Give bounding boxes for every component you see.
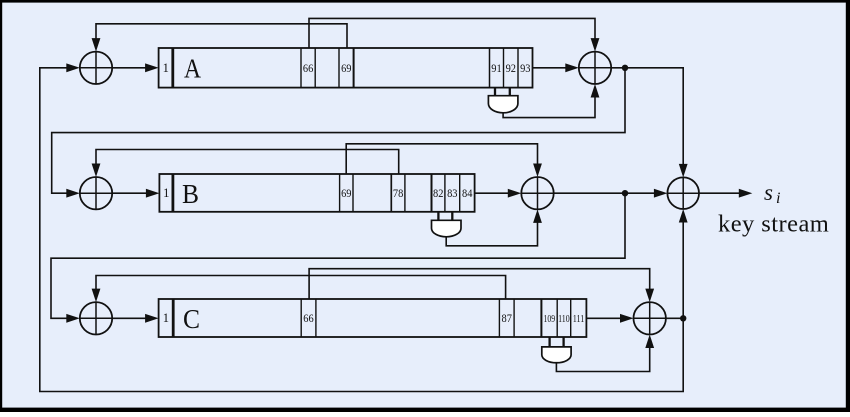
svg-text:key stream: key stream <box>718 211 829 238</box>
svg-text:66: 66 <box>303 311 313 325</box>
shift register A (93 bits) <box>159 48 533 88</box>
svg-text:66: 66 <box>303 61 313 75</box>
AND gate, taps C109·C110 <box>542 337 571 363</box>
XOR gate, register B output (right) <box>521 177 553 209</box>
wire register B output (cell 84) to XOR B-right <box>475 189 522 198</box>
AND gate, taps A91·A92 <box>488 88 518 113</box>
label key stream <box>718 211 829 238</box>
wire tap A66 to XOR A-right top <box>309 18 599 51</box>
wire key stream output arrow <box>699 189 752 198</box>
svg-text:84: 84 <box>462 186 472 200</box>
svg-text:91: 91 <box>491 61 501 75</box>
wire A output down/left to XOR B-left input <box>52 68 625 198</box>
wire AND-B output to XOR B bottom <box>446 209 542 245</box>
svg-text:69: 69 <box>341 61 351 75</box>
shift register B (84 bits) <box>159 174 474 212</box>
svg-text:1: 1 <box>163 61 169 75</box>
wire register C output (cell 111) to XOR C-right <box>586 314 633 323</box>
wire register A output (cell 93) to XOR A-right <box>533 63 579 72</box>
wire tap A69 feedback to XOR A-left top <box>92 24 347 52</box>
svg-text:92: 92 <box>506 61 516 75</box>
svg-text:93: 93 <box>520 61 530 75</box>
XOR gate, register A input (left) <box>80 52 112 84</box>
wire AND-C output to XOR C bottom <box>556 335 654 372</box>
wire XOR C-right to junction dot <box>666 317 683 319</box>
svg-text:A: A <box>184 54 201 84</box>
XOR gate, register B input (left) <box>80 177 112 209</box>
node: junction dot on A output <box>622 65 628 71</box>
shift register C (111 bits) <box>159 299 587 337</box>
wire XOR B-left output into register B cell 1 <box>112 189 159 198</box>
svg-text:82: 82 <box>433 186 443 200</box>
label s_i <box>764 180 780 207</box>
wire tap C87 feedback to XOR C-left top <box>92 276 506 303</box>
svg-text:78: 78 <box>393 186 403 200</box>
svg-text:B: B <box>182 179 199 209</box>
wire AND-A output to XOR A bottom <box>503 84 599 118</box>
svg-text:1: 1 <box>163 186 169 200</box>
svg-text:87: 87 <box>502 311 512 325</box>
wire tap C66 to XOR C-right top <box>309 269 654 302</box>
wire B output down/left to XOR C-left input <box>51 193 625 323</box>
node: junction dot on C output <box>680 315 686 321</box>
svg-text:C: C <box>183 304 200 334</box>
svg-text:1: 1 <box>163 311 169 325</box>
wire C output up to final XOR bottom <box>679 209 688 318</box>
node: junction dot on B output <box>622 190 628 196</box>
XOR gate, register C input (left) <box>80 302 112 334</box>
XOR gate, final key-stream combiner <box>667 177 699 209</box>
wire tap B78 feedback to XOR B-left top <box>92 150 399 178</box>
wire XOR A-right to junction and down to final XOR top <box>611 68 687 178</box>
svg-text:69: 69 <box>341 186 351 200</box>
wire XOR C-left output into register C cell 1 <box>112 314 158 323</box>
XOR gate, register A output (right) <box>579 52 611 84</box>
wire tap B69 to XOR B-right top <box>346 144 542 177</box>
svg-text:109: 109 <box>544 313 556 325</box>
AND gate, taps B82·B83 <box>432 212 462 237</box>
wire XOR A-left output into register A cell 1 <box>112 63 158 72</box>
svg-text:110: 110 <box>558 313 570 325</box>
wire XOR B-right to junction then final XOR left <box>554 189 668 198</box>
svg-text:83: 83 <box>447 186 457 200</box>
svg-text:111: 111 <box>573 313 585 325</box>
XOR gate, register C output (right) <box>634 302 666 334</box>
wire C output outer feedback loop to XOR A-left input <box>40 63 683 391</box>
